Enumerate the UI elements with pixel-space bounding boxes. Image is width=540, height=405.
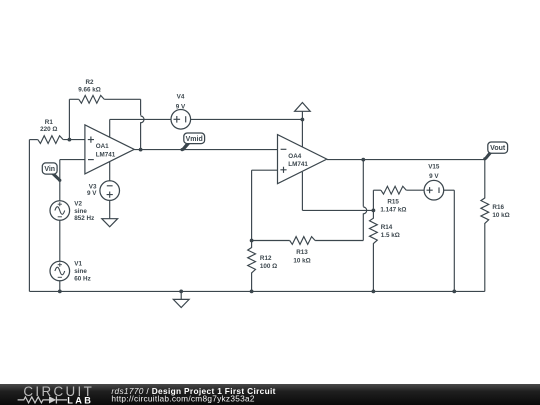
svg-text:852 Hz: 852 Hz [74,215,94,222]
CircuitLab logo resistor-diode glyph [18,396,67,403]
ground under V3 [102,219,118,227]
wire left rail [28,140,30,292]
footer bar [0,384,540,405]
wire V3 to ground [109,200,111,218]
wire OA1 V+ to V4 [110,118,171,120]
svg-text:LM741: LM741 [288,161,308,168]
svg-text:R16: R16 [492,204,504,211]
resistor R13 [290,237,315,265]
wire OA4 noninverting drop to R12 node [251,170,253,240]
wire R16 bottom lead [484,223,486,291]
wire R12 bottom lead [251,273,253,292]
svg-text:R14: R14 [381,224,393,231]
wire V4 to OA4 V+ node [191,118,303,120]
svg-text:9.66 kΩ: 9.66 kΩ [78,87,101,94]
wire VCC stem to OA4 V+ pin [301,111,303,147]
wire OA4 output to Vout [327,159,485,161]
wire Vin node drop to V2 [59,160,61,201]
svg-text:R15: R15 [387,199,399,206]
junction V15 ground rail [452,290,456,294]
wire feedback drop lower segment [140,122,142,149]
junction R1 R2 OA1 input node [68,138,72,142]
junction R14 ground rail [372,290,376,294]
svg-text:sine: sine [74,268,87,275]
wire R2 right lead [104,98,140,100]
ground under bottom rail [173,291,189,307]
svg-text:9 V: 9 V [87,190,97,197]
resistor R2 [78,79,104,103]
sine source V1 [50,261,91,283]
node flag Vout [483,142,507,160]
wire OA1 inverting input lead [60,159,85,161]
wire OA4 noninverting input lead [252,169,278,171]
resistor R15 [380,186,406,213]
wire R13 right lead [315,240,363,242]
wire OA4 V- to R15 R14 node [302,209,373,211]
wire Vout drop to R16 [484,160,486,199]
wire OA4 output feedback drop lower [362,213,364,240]
CircuitLab logo LAB text [67,395,93,405]
svg-text:60 Hz: 60 Hz [74,276,90,283]
svg-text:Vin: Vin [44,166,55,173]
wire R15 left lead drop [372,190,374,210]
junction R12 ground rail [250,290,254,294]
junction R15 R14 node [372,209,376,213]
wire feedback drop upper segment [140,99,142,115]
junction V1 ground rail [58,290,62,294]
sine source V2 [50,201,94,223]
svg-text:10 kΩ: 10 kΩ [492,212,509,219]
junction OA4 output node [361,158,365,162]
wire R13 left lead [252,240,290,242]
wire OA1 V+ pin stub [109,119,111,137]
svg-text:220 Ω: 220 Ω [40,126,57,133]
svg-text:R13: R13 [296,249,308,256]
voltage source V15 [424,163,444,200]
svg-text:sine: sine [74,208,87,215]
svg-text:OA1: OA1 [96,143,109,150]
wire V2 to V1 [59,220,61,261]
resistor R14 [370,218,400,243]
junction R12 R13 node [250,239,254,243]
svg-text:9 V: 9 V [429,173,439,180]
svg-text:9 V: 9 V [176,103,186,110]
node flag Vin [42,163,61,182]
svg-text:V1: V1 [74,261,82,268]
wire R2 branch up from input node [68,99,70,139]
wire V1 to ground rail [59,281,61,292]
wire hop over V+ supply wire [141,116,144,123]
svg-text:1.5 kΩ: 1.5 kΩ [381,232,400,239]
junction VCC node [301,118,305,122]
svg-text:R12: R12 [260,255,272,262]
voltage source V3 [87,181,119,201]
wire R15 left lead [373,189,381,191]
CircuitLab logo text [23,384,94,399]
junction ground symbol rail [179,290,183,294]
wire R14 bottom lead [372,243,374,291]
svg-text:V4: V4 [177,93,185,100]
node flag Vmid [181,133,205,151]
resistor R1 [38,119,63,144]
footer url line [111,394,254,404]
voltage source V4 [171,93,191,129]
wire V15 drop to ground rail [453,190,455,291]
svg-text:LM741: LM741 [96,151,116,158]
svg-text:OA4: OA4 [288,153,301,160]
svg-text:1.147 kΩ: 1.147 kΩ [380,207,406,214]
resistor R16 [481,198,510,223]
wire OA1 output to OA4 inverting input [134,149,277,151]
svg-text:LAB: LAB [67,395,93,405]
svg-text:V15: V15 [428,163,440,170]
op-amp OA1 [85,125,134,174]
svg-text:Vout: Vout [490,145,506,152]
power flag VCC [295,103,311,112]
wire R14 top lead [372,210,374,218]
wire hop over OA4 V- wire [363,207,366,214]
svg-text:10 kΩ: 10 kΩ [293,258,310,265]
wire R2 left lead [69,98,78,100]
wire R1 left lead from left rail [29,139,37,141]
wire R15 right lead to V15 [406,189,424,191]
wire R12 top lead [251,241,253,248]
svg-text:R2: R2 [85,79,94,86]
wire V15 right lead [444,189,455,191]
junction OA1 output feedback node [139,148,143,152]
svg-text:V2: V2 [74,201,82,208]
wire OA1 V- pin to V3 [109,162,111,181]
svg-text:http://circuitlab.com/cm8g7ykz: http://circuitlab.com/cm8g7ykz353a2 [111,394,254,404]
wire OA4 output feedback drop upper [362,160,364,207]
wire R1 right lead to OA1 noninverting input [63,139,85,141]
resistor R12 [248,248,278,273]
svg-text:Vmid: Vmid [186,136,203,143]
wire OA4 V- pin stub [301,172,303,211]
op-amp OA4 [278,135,327,184]
svg-text:100 Ω: 100 Ω [260,263,277,270]
wire bottom ground rail [29,290,484,292]
footer title line [111,386,275,396]
